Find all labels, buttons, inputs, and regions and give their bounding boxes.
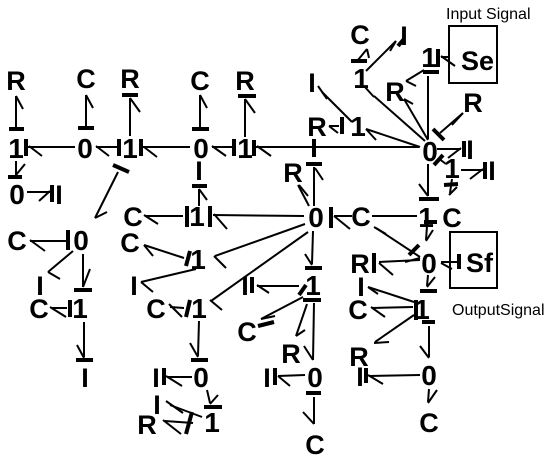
svg-text:R: R <box>120 64 140 94</box>
inertia I15 (below J4) <box>195 156 203 186</box>
bond J9 to C4 (wire, harpoon at C4, causal bar at J9) <box>50 300 70 317</box>
source of flow Sf box <box>450 232 497 288</box>
svg-text:0: 0 <box>9 179 25 210</box>
bond J11 to J15 (diagonal, harpoon at J15) <box>214 224 305 268</box>
bond J6 to I11 (wire right, harpoon and causal bar at I11) <box>437 141 464 158</box>
svg-text:I: I <box>81 363 89 393</box>
1-junction J9 <box>72 293 88 324</box>
bond J1 to J7 (vertical wire, harpoon and causal bar at bottom) <box>8 161 25 177</box>
bond J25 to J26 (vertical, causal bar at top, harpoon at bottom) <box>420 322 435 358</box>
capacitor C4 <box>29 294 49 324</box>
svg-text:I: I <box>130 271 138 301</box>
bond J6 to J21 (diagonal, harpoon at J21) <box>366 129 420 147</box>
1-junction J23 <box>421 42 437 73</box>
capacitor C12 <box>350 20 370 50</box>
inertia I4 <box>130 271 138 301</box>
bond J20 to I8 (harpoon and causal bar at I8) <box>275 368 305 386</box>
svg-text:C: C <box>190 66 210 96</box>
bond J22 to C12 (harpoon at top, causal bar) <box>351 49 369 61</box>
1-junction J16 <box>186 293 207 324</box>
0-junction J4 <box>193 133 209 164</box>
resistor R2 <box>120 64 140 94</box>
resistor R6 <box>281 339 301 369</box>
bond J23 to J6 (vertical wire, causal bar and harpoon at top) <box>406 70 439 139</box>
svg-text:I: I <box>488 156 496 186</box>
0-junction J20 <box>307 362 323 393</box>
label Input Signal <box>446 6 531 23</box>
svg-text:0: 0 <box>308 202 324 233</box>
svg-text:1: 1 <box>191 293 207 324</box>
1-junction J18 <box>204 407 220 438</box>
capacitor C3 <box>7 226 27 256</box>
svg-text:0: 0 <box>77 133 93 164</box>
capacitor C7 <box>442 203 462 233</box>
bond J24 to I12 (wire right, harpoon and causal bar at I12) <box>461 162 485 179</box>
bond J5 to R3 (causal bar at top, harpoon at top) <box>238 96 256 137</box>
bond J3 to J8 (diagonal wire with causal stroke at top, harpoon at bottom) <box>95 165 129 218</box>
inertia I7 <box>241 271 249 301</box>
svg-text:R: R <box>137 410 157 440</box>
bond J9 to I3 (vertical, harpoon and causal bar at bottom) <box>76 322 93 360</box>
resistor R3 <box>235 66 255 96</box>
svg-text:C: C <box>29 294 49 324</box>
bond J8 to I2 (diagonal, harpoon at I2) <box>48 251 73 279</box>
1-junction J1 <box>8 133 24 164</box>
inertia I3 <box>81 363 89 393</box>
resistor R11 <box>349 342 369 372</box>
svg-text:C: C <box>351 202 371 232</box>
bond J21 to R7 (harpoon at R7, causal bar at J21) <box>329 117 342 134</box>
bond J6 to R9 (diagonal, harpoon at R9, causal stroke at J6) <box>433 113 463 140</box>
capacitor C14 <box>419 408 439 438</box>
svg-text:R: R <box>463 88 483 118</box>
svg-text:C: C <box>7 226 27 256</box>
svg-text:R: R <box>283 158 303 188</box>
bond Se to J23 (harpoon at J23, causal bar at J23) <box>438 49 455 67</box>
bond J2 to C1 (harpoon at top, causal bar at bottom) <box>78 95 94 128</box>
bond J25 to C13 (harpoon at C13) <box>371 307 413 317</box>
svg-text:R: R <box>385 77 405 107</box>
svg-text:1: 1 <box>189 201 205 232</box>
inertia I11 <box>466 135 474 165</box>
bond J6 to J22 (diagonal, harpoon at J22) <box>364 86 425 141</box>
inertia I8 <box>263 363 271 393</box>
bond J11 to J16 (diagonal, harpoon at J16) <box>210 232 308 310</box>
bond J18 to R5 (harpoon at R5, slanted causal bar at J18) <box>163 412 193 434</box>
0-junction J14 <box>421 248 437 279</box>
bond J6 to R8 (diagonal, harpoon at R8) <box>404 99 428 140</box>
bond J26 to C14 (short, harpoon at C14) <box>428 389 437 403</box>
0-junction J26 <box>421 360 437 391</box>
svg-text:OutputSignal: OutputSignal <box>452 302 545 319</box>
bond J3 to R2 (causal bar at top, harpoon at top) <box>122 95 140 136</box>
bond J19 to C10 (diagonal, harpoon and bar at C10) <box>258 297 303 326</box>
svg-text:I: I <box>263 363 271 393</box>
bond J22 to I10 (diagonal, harpoon and small bar at I10) <box>366 39 404 71</box>
svg-text:1: 1 <box>122 133 138 164</box>
0-junction J11 (central) <box>308 202 324 233</box>
wire C6 to J13 <box>372 215 417 217</box>
svg-text:R: R <box>6 66 26 96</box>
1-junction J10 <box>189 201 205 232</box>
svg-text:1: 1 <box>8 133 24 164</box>
svg-text:0: 0 <box>307 362 323 393</box>
bond J18 to I6 (diagonal, harpoon at I6) <box>166 401 202 417</box>
capacitor C5 <box>123 202 143 232</box>
bond J4 to J3 (causal bar and harpoon at J3) <box>141 139 190 157</box>
bond J16 to J17 (vertical, harpoon and causal bar at bottom) <box>190 321 208 360</box>
bond J26 to I14 (harpoon and causal bar at I14) <box>366 368 420 384</box>
svg-text:C: C <box>146 294 166 324</box>
0-junction J8 <box>73 225 89 256</box>
bond J25 to I13 (diagonal, harpoon at I13) <box>368 287 414 302</box>
bond J8 to J9 (vertical, harpoon and causal bar at bottom) <box>74 254 92 290</box>
svg-text:R: R <box>307 112 327 142</box>
svg-text:I: I <box>195 156 203 186</box>
bond J11 up to main wire (horiz causal bar at top, harpoon up) <box>306 164 323 206</box>
1-junction J19 <box>305 270 321 301</box>
resistor R7 <box>307 112 327 142</box>
inertia I6 <box>153 390 161 420</box>
resistor R4 <box>283 158 303 188</box>
0-junction J2 <box>77 133 93 164</box>
svg-text:I: I <box>466 135 474 165</box>
svg-text:0: 0 <box>421 248 437 279</box>
svg-text:1: 1 <box>350 111 366 142</box>
bond C6 to J11 (causal bar at J11, harpoon at J11) <box>331 207 352 229</box>
bond C6 to J14 (diagonal wire, harpoon at top, causal stroke near J14) <box>374 227 420 262</box>
svg-text:0: 0 <box>421 360 437 391</box>
svg-text:0: 0 <box>193 362 209 393</box>
resistor R9 <box>463 88 483 118</box>
capacitor C9 <box>146 294 166 324</box>
bond J11 to J19 (vertical, harpoon and causal bar at bottom) <box>305 231 322 268</box>
svg-text:Input Signal: Input Signal <box>446 6 531 23</box>
bond J6 to J13 (vertical, harpoon and causal bar at J13) <box>419 164 439 199</box>
resistor R8 <box>385 77 405 107</box>
inertia I13 <box>357 272 365 302</box>
1-junction J25 <box>414 294 430 325</box>
svg-text:I: I <box>152 363 160 393</box>
1-junction J24 <box>444 153 460 184</box>
bond J25 to R11 (diagonal, harpoon at R11) <box>374 315 414 343</box>
svg-text:C: C <box>419 408 439 438</box>
bond J11 to J10 (causal bar at J10, harpoon at J10, long wire) <box>210 206 304 229</box>
svg-text:C: C <box>442 203 462 233</box>
bond J8 to C3 (wire, harpoon at C3, causal bar at J8) <box>30 230 68 251</box>
bond J10 to C5 (harpoon at C5, causal bar at J10) <box>144 206 187 227</box>
svg-text:R: R <box>281 339 301 369</box>
svg-text:C: C <box>350 20 370 50</box>
svg-text:1: 1 <box>421 42 437 73</box>
inertia I14 <box>356 362 364 392</box>
capacitor C11 <box>305 430 325 460</box>
svg-text:1: 1 <box>237 133 253 164</box>
bond J14 to J25 (vertical, harpoon and causal bar at J25) <box>420 275 437 291</box>
1-junction J22 <box>353 63 369 94</box>
bond J10 to I15 (causal bar below I15, harpoon up, wire down to J10) <box>192 186 207 206</box>
svg-text:I: I <box>241 271 249 301</box>
svg-text:1: 1 <box>305 270 321 301</box>
svg-text:C: C <box>348 295 368 325</box>
svg-text:C: C <box>305 430 325 460</box>
svg-text:Se: Se <box>461 46 494 76</box>
bond J19 to R6 (diagonal, harpoon at R6) <box>296 304 307 336</box>
capacitor C1 <box>76 64 96 94</box>
svg-text:I: I <box>400 21 408 51</box>
capacitor C8 <box>120 228 140 258</box>
bond J14 to R10 (harpoon at R10, causal bar at R10) <box>374 253 420 275</box>
svg-text:1: 1 <box>204 407 220 438</box>
svg-text:I: I <box>356 362 364 392</box>
inertia I10 <box>400 21 408 51</box>
bond J21 to I9 (diagonal, harpoon at I9) <box>318 86 352 122</box>
inertia I2 <box>36 271 44 301</box>
bond J7 to I1 (wire right, harpoon and causal bar at I1) <box>27 185 52 202</box>
bond J6 to J5 (harpoon at J5, long wire with mid causal bar) <box>254 139 419 157</box>
0-junction J7 <box>9 179 25 210</box>
bond J2 to J1 (wire, causal bar and harpoon at J1) <box>26 139 75 156</box>
bond J17 to I5 (harpoon and causal bar at I5) <box>164 368 192 386</box>
resistor R1 <box>6 66 26 96</box>
svg-text:C: C <box>76 64 96 94</box>
capacitor C10 <box>237 317 257 347</box>
label OutputSignal <box>452 302 545 319</box>
svg-text:0: 0 <box>73 225 89 256</box>
1-junction J3 <box>122 133 138 164</box>
svg-text:C: C <box>120 228 140 258</box>
capacitor C13 <box>348 295 368 325</box>
inertia I5 <box>152 363 160 393</box>
svg-text:I: I <box>55 180 63 210</box>
bond J6 to J24 (short diagonal, causal stroke) <box>434 155 446 165</box>
1-junction J15 <box>186 244 206 275</box>
bond J15 to I4 (diagonal, harpoon at I4) <box>141 269 196 292</box>
bond J15 to C8 (harpoon at C8) <box>144 245 184 258</box>
0-junction J17 <box>193 362 209 393</box>
bond J13 to J14 (bar below J13, harpoon at J14) <box>424 222 437 241</box>
resistor R5 <box>137 410 157 440</box>
svg-text:I: I <box>308 68 316 98</box>
1-junction J5 <box>237 133 253 164</box>
bond J24 to C7 (short, bar and harpoon at C7) <box>444 179 458 195</box>
bond J4 to C2 (harpoon at top, causal bar at bottom) <box>192 95 209 129</box>
inertia I9 <box>308 68 316 98</box>
capacitor C6 <box>351 202 371 232</box>
svg-text:Sf: Sf <box>466 248 494 278</box>
bond J11 to R4 (diagonal, harpoon at R4) <box>298 185 309 206</box>
0-junction J6 (central upper) <box>422 136 438 167</box>
bond J16 to C9 (harpoon at C9) <box>169 304 184 317</box>
source of effort Se box <box>449 26 497 83</box>
inertia I12 <box>488 156 496 186</box>
1-junction J13 <box>418 202 434 233</box>
bond J1 to R1 (harpoon at R1 top, causal bar at bottom) <box>9 96 24 129</box>
bond J5 to J4 (harpoon at J4, causal bar at J5) <box>212 139 234 156</box>
bond J3 to J2 (harpoon at J2, causal bar at J3) <box>96 139 119 156</box>
resistor R10 <box>350 249 370 279</box>
bond Sf to J14 (causal bar at Sf, harpoon at J14) <box>441 254 459 269</box>
capacitor C2 <box>190 66 210 96</box>
bond J19 to J20 (vertical, causal bar at top, harpoon at bottom) <box>303 300 321 360</box>
bond J20 to C11 (causal bar at top, harpoon at bottom) <box>303 393 321 424</box>
inertia I1 <box>55 180 63 210</box>
svg-text:R: R <box>235 66 255 96</box>
bond J17 to J18 (harpoon and causal bar at J18) <box>204 390 222 407</box>
1-junction J21 <box>350 111 366 142</box>
svg-text:C: C <box>237 317 257 347</box>
bond J19 to I7 (harpoon and causal bar at I7, slanted bar at J19) <box>252 277 306 295</box>
svg-text:1: 1 <box>72 293 88 324</box>
